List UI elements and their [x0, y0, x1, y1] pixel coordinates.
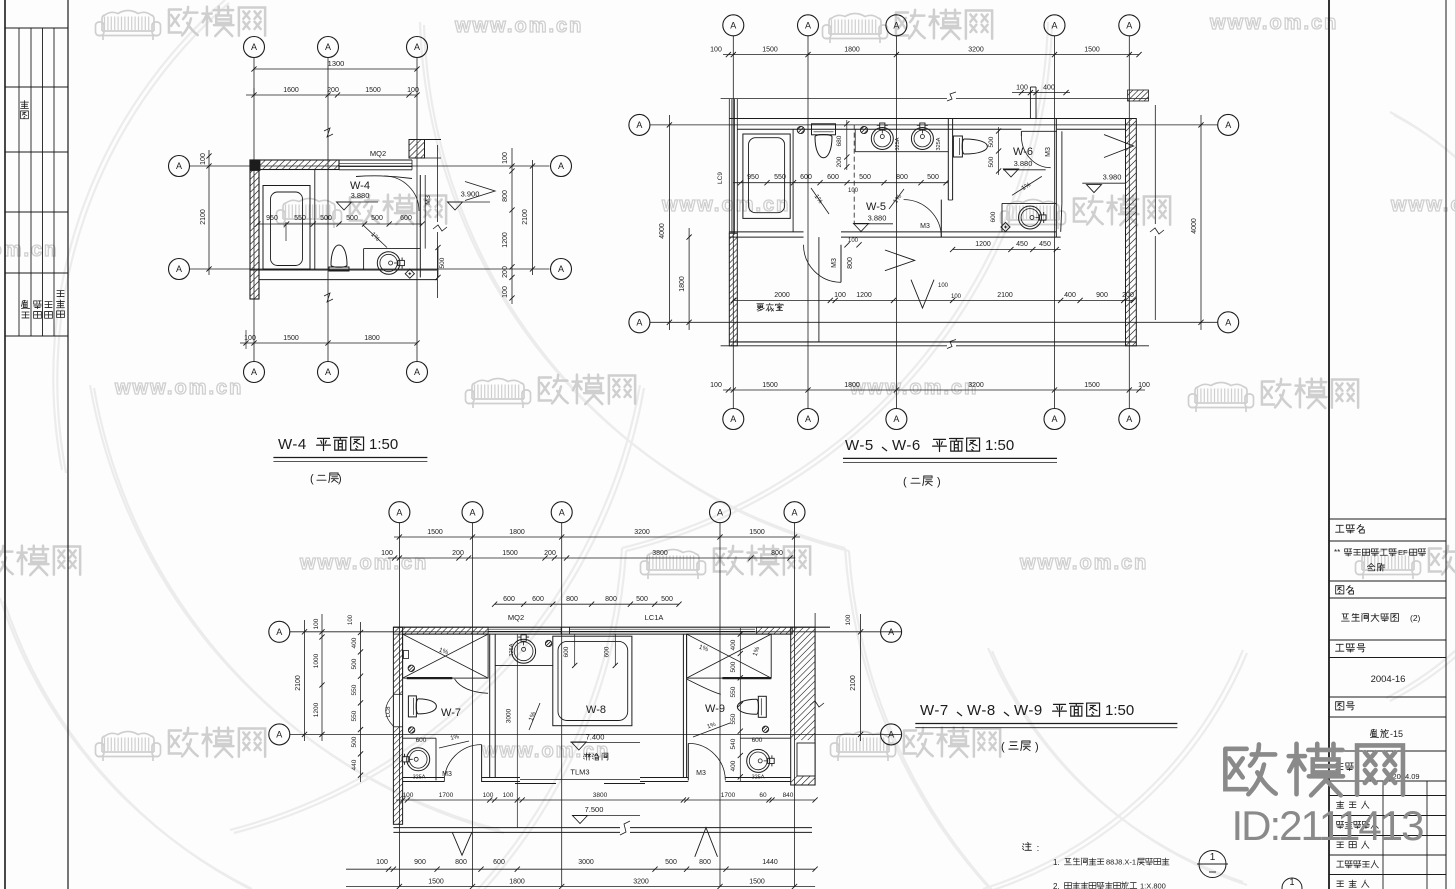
svg-text:1:50: 1:50 [1105, 702, 1134, 719]
W-4 corner column filled [250, 160, 260, 171]
svg-text:100: 100 [403, 792, 414, 799]
W56 axis bubbles [723, 15, 744, 36]
svg-text:2000: 2000 [774, 292, 790, 299]
W-4 right 2100 chain [532, 160, 534, 275]
svg-text:A: A [325, 42, 331, 52]
svg-text:600: 600 [563, 646, 570, 657]
svg-text:W-9: W-9 [1014, 702, 1043, 719]
W789 partition W7-W8 [489, 634, 491, 777]
watermark sofa logo [823, 14, 888, 44]
svg-text:200: 200 [544, 550, 556, 557]
svg-text:800: 800 [566, 596, 578, 603]
svg-text:1:X.800: 1:X.800 [1140, 882, 1166, 889]
svg-text:1500: 1500 [428, 879, 444, 886]
W9 door M3 [687, 743, 689, 780]
svg-text:3800: 3800 [652, 550, 668, 557]
svg-text:200: 200 [452, 550, 464, 557]
svg-text:1300: 1300 [328, 59, 345, 68]
W56 left wall window LC9 [728, 99, 730, 234]
svg-text:500: 500 [927, 174, 939, 181]
svg-text:950: 950 [266, 215, 278, 222]
W56 W6 east wall [1055, 119, 1057, 237]
svg-text:W-6: W-6 [892, 437, 921, 454]
W56 section marks [885, 250, 915, 271]
W56 bathroom south wall [729, 231, 803, 233]
svg-text:A: A [730, 414, 736, 424]
W-4 bathtub [263, 186, 310, 270]
W-4 top dimension 1300 [254, 68, 417, 70]
W56 bottom interior dims [733, 299, 1133, 301]
W8 washbasin [512, 639, 536, 663]
svg-text:M3: M3 [696, 770, 706, 777]
W-4 top-right wall pier [409, 140, 425, 159]
svg-text:680: 680 [836, 135, 843, 146]
W56 dim 680/200 [846, 120, 848, 170]
svg-text:450: 450 [1016, 241, 1028, 248]
svg-text:100: 100 [845, 614, 852, 625]
W7 shower [403, 634, 489, 678]
svg-text:400: 400 [351, 637, 358, 648]
notes [1022, 842, 1031, 850]
watermark sofa logo [96, 732, 161, 762]
svg-text:100: 100 [834, 292, 846, 299]
watermark sofa logo [466, 379, 531, 409]
svg-text:3.880: 3.880 [868, 214, 887, 223]
svg-text:600: 600 [990, 211, 997, 222]
W9 toilet [737, 696, 766, 717]
svg-text:100: 100 [938, 283, 949, 289]
svg-text:200: 200 [502, 266, 509, 278]
left margin strip [4, 0, 6, 889]
svg-text:325A: 325A [752, 775, 765, 781]
svg-text:1200: 1200 [856, 292, 872, 299]
detail mark 1 [1199, 851, 1226, 878]
svg-text:7.400: 7.400 [586, 733, 605, 742]
svg-text:1200: 1200 [975, 241, 991, 248]
svg-text:): ) [937, 476, 941, 488]
svg-text:100: 100 [951, 294, 962, 300]
svg-text:A: A [888, 730, 894, 740]
W789 right dims [860, 614, 862, 741]
W56 washbasin 1 [871, 128, 893, 150]
title block captions [1336, 525, 1344, 532]
svg-text:LC1A: LC1A [645, 613, 664, 622]
W56 interior dims [733, 182, 948, 184]
svg-text:100: 100 [376, 859, 388, 866]
svg-text:1.: 1. [1053, 858, 1060, 867]
W-4 axis break symbols [324, 128, 333, 137]
svg-text:www.om.cn: www.om.cn [1019, 552, 1148, 574]
svg-text:900: 900 [414, 859, 426, 866]
W56 lower overhang line [721, 345, 947, 347]
svg-text::: : [1037, 843, 1040, 854]
W56 lower door M3 [840, 245, 842, 282]
svg-text:A: A [636, 318, 642, 328]
svg-text:3.880: 3.880 [351, 191, 370, 200]
svg-text:500: 500 [320, 215, 332, 222]
svg-text:100: 100 [710, 47, 722, 54]
svg-text:1: 1 [1210, 852, 1216, 863]
W789 top dim row2 [388, 557, 795, 559]
svg-text:200: 200 [327, 87, 339, 94]
svg-text:-15: -15 [1390, 729, 1403, 739]
svg-text:500: 500 [988, 156, 995, 167]
W789 right outer line [814, 613, 816, 698]
W-4 top dimension row 1600/200/1500/100 [246, 94, 417, 96]
W-4 partition tub/wc [314, 170, 316, 271]
big OMU logo [1225, 744, 1275, 794]
W8 slope [529, 703, 540, 730]
svg-text:500: 500 [439, 257, 446, 268]
svg-text:1:50: 1:50 [369, 436, 398, 453]
svg-text:440: 440 [351, 759, 358, 770]
svg-text:A: A [251, 367, 257, 377]
title block row label [1336, 801, 1343, 808]
svg-text:100: 100 [848, 238, 859, 244]
svg-text:400: 400 [1064, 292, 1076, 299]
svg-text:800: 800 [502, 190, 509, 202]
svg-text:1200: 1200 [502, 232, 509, 248]
W-4 axis grid lines [253, 58, 255, 362]
svg-text:2100: 2100 [200, 209, 207, 225]
svg-text:3200: 3200 [634, 529, 650, 536]
svg-text:4000: 4000 [1191, 218, 1198, 234]
W56 right wall hatched [1126, 119, 1137, 346]
svg-text:M3: M3 [442, 771, 452, 778]
svg-text:1440: 1440 [762, 859, 778, 866]
svg-text:www.om.cn: www.om.cn [481, 740, 610, 762]
svg-text:1800: 1800 [844, 47, 860, 54]
W-4 interior dimension row [258, 223, 423, 225]
watermark sofa logo [1189, 383, 1254, 413]
svg-text:325A: 325A [509, 643, 515, 656]
svg-text:A: A [1225, 318, 1231, 328]
svg-text:1800: 1800 [844, 382, 860, 389]
svg-text:A: A [1126, 414, 1132, 424]
svg-text:A: A [414, 42, 420, 52]
W56 left dim 1800 [688, 228, 690, 330]
svg-text:A: A [558, 264, 564, 274]
W9 shower screen [722, 677, 771, 679]
W-4 small 500 dim [437, 248, 439, 278]
W-4 bottom wall [250, 269, 437, 271]
W789 thin line x=517 [516, 634, 518, 828]
svg-text:A: A [276, 627, 282, 637]
svg-text:100: 100 [1016, 85, 1028, 92]
svg-text:1500: 1500 [762, 47, 778, 54]
W789 partition W8-W9 [682, 634, 684, 777]
svg-text:A: A [888, 627, 894, 637]
svg-text:200: 200 [1122, 292, 1134, 299]
svg-text:600: 600 [604, 646, 611, 657]
W56 top dimension row [723, 54, 1139, 56]
W-4 section arrow [465, 182, 495, 201]
svg-text:1500: 1500 [762, 382, 778, 389]
svg-text:550: 550 [774, 174, 786, 181]
W789 axis grid lines [398, 523, 400, 886]
W56 W6 slope [1012, 176, 1042, 195]
watermark sofa logo [831, 732, 896, 762]
W56 axis grid lines [732, 36, 734, 408]
title block row label [1337, 842, 1344, 847]
svg-text:A: A [1051, 414, 1057, 424]
svg-text:2004-16: 2004-16 [1371, 674, 1406, 685]
svg-text:2100: 2100 [997, 292, 1013, 299]
svg-text:(2): (2) [1410, 613, 1421, 623]
W-4 top wall [250, 160, 339, 170]
W9 shower [687, 634, 772, 678]
svg-text:500: 500 [636, 596, 648, 603]
W56 right outer line with break [1154, 105, 1156, 224]
svg-text:100: 100 [381, 550, 393, 557]
svg-text:3000: 3000 [506, 708, 513, 723]
title block row label [1336, 861, 1343, 867]
svg-text:325A: 325A [413, 775, 426, 781]
W56 floor drains [797, 126, 804, 133]
svg-text:3000: 3000 [578, 859, 594, 866]
background arc curves [53, 0, 225, 470]
detail mark 2 partial [1282, 878, 1302, 889]
svg-text:3200: 3200 [968, 382, 984, 389]
svg-text:W-7: W-7 [441, 707, 461, 719]
W56 roof overhang line [721, 98, 947, 100]
svg-text:800: 800 [847, 257, 854, 269]
W56 bottom wall [729, 341, 1136, 343]
svg-text:500: 500 [730, 661, 737, 672]
svg-text:M3: M3 [831, 258, 838, 268]
svg-text:100: 100 [407, 87, 419, 94]
svg-text:500: 500 [665, 859, 677, 866]
svg-text:600: 600 [752, 737, 763, 744]
svg-text:A: A [805, 21, 811, 31]
W56 toilet W6 [953, 136, 987, 157]
svg-text:600: 600 [532, 596, 544, 603]
svg-text:600: 600 [416, 737, 427, 744]
left strip table text [21, 101, 29, 109]
svg-text:7.500: 7.500 [585, 805, 604, 814]
svg-text:1000: 1000 [313, 653, 320, 668]
svg-text:(: ( [310, 473, 314, 485]
W56 dim 500/500 [998, 127, 1000, 175]
W56 washbasin 2 [911, 128, 933, 150]
svg-text:A: A [414, 367, 420, 377]
svg-text:A: A [559, 507, 565, 517]
svg-text:600: 600 [503, 596, 515, 603]
W789 left wall window LC8 [393, 693, 402, 695]
W56 right dim 4000 [1200, 115, 1202, 330]
W-4 level symbol 3.880 [337, 202, 352, 210]
svg-text:A: A [176, 264, 182, 274]
svg-text:100: 100 [503, 792, 514, 799]
W789 sliding door TLM3 [520, 779, 640, 781]
svg-text:A: A [1126, 21, 1132, 31]
svg-text:550: 550 [351, 684, 358, 695]
svg-text:A: A [893, 414, 899, 424]
svg-text:www.om.cn: www.om.cn [849, 377, 978, 399]
W-4 window MQ2 [339, 159, 412, 161]
svg-text:www.om.cn: www.om.cn [299, 552, 428, 574]
svg-text:1500: 1500 [365, 87, 381, 94]
svg-text:www.om.cn: www.om.cn [454, 15, 583, 37]
W56 toilet W5 [812, 124, 836, 158]
svg-text:A: A [791, 507, 797, 517]
svg-text:200: 200 [836, 156, 843, 167]
svg-text:1500: 1500 [283, 335, 299, 342]
W789 bottom partition [403, 777, 445, 779]
svg-text:W-5: W-5 [866, 201, 886, 213]
svg-text:1500: 1500 [1084, 382, 1100, 389]
svg-text:800: 800 [699, 859, 711, 866]
W789 windows top [488, 628, 561, 630]
W789 bottom outer wall [393, 827, 620, 829]
svg-text:550: 550 [351, 710, 358, 721]
svg-text:500: 500 [371, 215, 383, 222]
svg-text:550: 550 [730, 686, 737, 697]
svg-text:500: 500 [351, 736, 358, 747]
svg-text:100: 100 [200, 153, 207, 165]
svg-text:900: 900 [1096, 292, 1108, 299]
W9 slope [693, 723, 730, 737]
svg-text:1500: 1500 [427, 529, 443, 536]
svg-text:A: A [396, 507, 402, 517]
svg-text:1800: 1800 [364, 335, 380, 342]
svg-text:100: 100 [848, 188, 859, 194]
W56 top dim 100/400 [1012, 92, 1070, 94]
W56 washbasin W6 [1019, 206, 1042, 229]
svg-text:600: 600 [493, 859, 505, 866]
svg-text:2100: 2100 [850, 675, 857, 691]
W56 partition W5-W6 [947, 119, 949, 201]
svg-text:W-7: W-7 [920, 702, 949, 719]
svg-text:600: 600 [400, 215, 412, 222]
svg-text:www.om.cn: www.om.cn [1209, 12, 1338, 34]
svg-text:1800: 1800 [509, 879, 525, 886]
W-4 right dimension chain [511, 148, 513, 304]
svg-text:www.om.cn: www.om.cn [0, 239, 58, 261]
svg-text:W-4: W-4 [278, 436, 307, 453]
svg-text:400: 400 [1043, 85, 1055, 92]
left strip table [5, 27, 68, 29]
title block row label [1337, 881, 1344, 886]
svg-text:M3: M3 [425, 195, 432, 205]
svg-text:2.: 2. [1053, 882, 1060, 889]
svg-text:1500: 1500 [749, 529, 765, 536]
W56 basin counter [855, 151, 948, 153]
svg-text:3800: 3800 [593, 792, 608, 799]
svg-text:A: A [636, 120, 642, 130]
watermark sofa logo [277, 199, 342, 229]
W7 shower fitting [404, 651, 409, 659]
svg-text:1200: 1200 [313, 702, 320, 717]
svg-text:500: 500 [661, 596, 673, 603]
svg-text:600: 600 [800, 174, 812, 181]
W56 section arrow east [1104, 135, 1134, 158]
W56 door M3 to W5 [940, 200, 942, 237]
W789 top dim row1 [394, 536, 800, 538]
W-4 floor drain [405, 269, 414, 278]
svg-text:EF: EF [1398, 548, 1408, 557]
W-4 slope 1% [363, 225, 387, 248]
W-4 bottom dimension row [240, 342, 417, 344]
svg-text:(: ( [903, 476, 907, 488]
svg-text:100: 100 [313, 618, 320, 629]
svg-text:2100: 2100 [522, 209, 529, 225]
svg-text:A: A [1051, 21, 1057, 31]
svg-text:2004.09: 2004.09 [1392, 772, 1419, 781]
svg-text:500: 500 [351, 658, 358, 669]
svg-text:1500: 1500 [749, 879, 765, 886]
svg-text:W-9: W-9 [705, 703, 725, 715]
svg-text:100: 100 [502, 286, 509, 298]
svg-text:1800: 1800 [679, 276, 686, 292]
W-4 door M3 [384, 176, 419, 211]
svg-text:A: A [1225, 120, 1231, 130]
svg-text:LC9: LC9 [717, 172, 724, 184]
W-4 washbasin [377, 252, 400, 275]
W56 left wall lower hatched [729, 233, 737, 346]
W789 bottom dims row1 [396, 799, 815, 801]
svg-text:840: 840 [783, 792, 794, 799]
W8 shower tray [553, 636, 632, 726]
W789 section V down [452, 832, 472, 855]
W789 left dims [321, 614, 323, 741]
W789 right wall pier gap [797, 743, 815, 776]
W789 bottom dims row3 [346, 886, 815, 888]
W56 top-right roof stub [1128, 90, 1149, 101]
svg-text:325A: 325A [936, 137, 942, 150]
W789 section A up [695, 828, 718, 857]
svg-text:www.om.cn: www.om.cn [1390, 194, 1455, 216]
W56 dims under W6 [953, 249, 1061, 251]
svg-text:A: A [251, 42, 257, 52]
svg-text:1500: 1500 [1084, 47, 1100, 54]
svg-text:(: ( [1001, 741, 1005, 753]
W9 vanity [740, 737, 790, 739]
svg-text:A: A [893, 21, 899, 31]
watermark sofa logo [96, 11, 161, 41]
svg-text:3200: 3200 [633, 879, 649, 886]
W56 dressing room label [757, 304, 764, 311]
svg-text:A: A [717, 507, 723, 517]
svg-text:1600: 1600 [283, 87, 299, 94]
W789 bottom dims row2 [346, 868, 815, 870]
svg-text:4000: 4000 [659, 223, 666, 239]
W7 shower screen [407, 677, 453, 679]
W7 toilet [408, 696, 436, 717]
svg-text:88J8.X-1: 88J8.X-1 [1106, 858, 1136, 867]
svg-text:MQ2: MQ2 [370, 149, 386, 158]
W7 slope [439, 741, 469, 748]
svg-text:3.880: 3.880 [1014, 159, 1033, 168]
watermark sofa logo [1356, 550, 1421, 580]
svg-text:1700: 1700 [439, 792, 454, 799]
svg-text:550: 550 [730, 713, 737, 724]
svg-text:325A: 325A [895, 137, 901, 150]
title block rows [1329, 518, 1446, 520]
svg-text:W-5: W-5 [845, 437, 874, 454]
svg-text:): ) [1035, 741, 1039, 753]
svg-text:800: 800 [771, 550, 783, 557]
svg-text:3.980: 3.980 [1103, 173, 1122, 182]
W-4 toilet [329, 245, 349, 271]
W789 axis bubbles [389, 502, 410, 523]
svg-text:100: 100 [348, 614, 354, 625]
W56 top wall [729, 118, 1136, 120]
svg-text:800: 800 [605, 596, 617, 603]
W-4 room east wall [419, 175, 421, 277]
svg-text:3200: 3200 [968, 47, 984, 54]
W56 partition tub [792, 129, 794, 232]
